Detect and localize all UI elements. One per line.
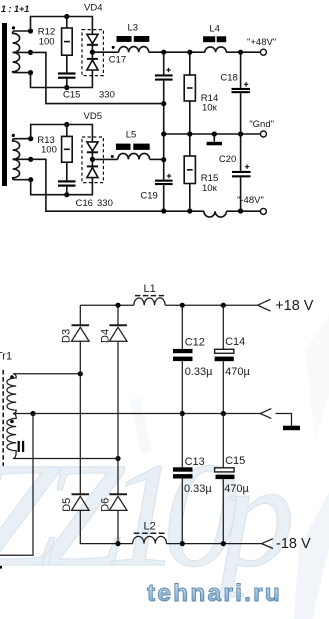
watermark big letters [0,432,291,598]
inductor L2 [133,536,167,543]
wire C17 stem [163,52,165,74]
wire C16 to bottom rail 2 [66,187,68,195]
node T1 top terminal [28,28,33,33]
node C17 top [161,50,166,55]
wire D4 bottom to h3 [117,341,119,458]
terminal Gnd [260,131,266,137]
ground symbol 2 [283,426,300,431]
svg-text:D3: D3 [61,329,73,343]
watermark swoosh bottom right [294,492,329,619]
resistor R15 stem [189,134,191,156]
terminal +18V arrow [258,299,271,311]
wire center tap down and left [0,414,33,556]
inductor L1 [134,298,165,305]
node R12 top [64,14,69,19]
capacitor C15 (top plate hollow) [215,468,235,472]
svg-text:100: 100 [41,145,57,156]
svg-text:C12: C12 [185,336,205,348]
svg-text:L4: L4 [209,24,220,35]
wire C13 bottom [181,479,183,544]
capacitor C19 [155,180,173,182]
svg-text:L3: L3 [128,23,139,34]
node rail D4 [115,303,120,308]
transformer winding 1 (lower half) [13,52,31,72]
wire T2 center tap to -48 rail [31,159,164,211]
node -48 rail R15 [187,208,192,213]
wire Gnd rail [164,133,261,135]
watermark swoosh top right [305,315,329,440]
wire VD5 output to L5 [92,158,117,160]
svg-text:"-48V": "-48V" [237,195,264,206]
resistor R14 stem [189,52,191,75]
diode D3 [72,324,90,326]
svg-text:VD4: VD4 [84,3,102,14]
wire C14 bottom [222,361,224,413]
transformer winding 1 (upper half, R12 side) [13,31,31,52]
watermark band upper [130,398,152,454]
wire R12 stem top [66,17,68,29]
capacitor C12 [173,349,193,353]
node -48 rail C19 [161,208,166,213]
node h3 D4/D6 junction [115,456,120,461]
wire C15 bottom [222,479,224,543]
svg-text:C14: C14 [225,336,245,348]
svg-text:330: 330 [97,198,113,209]
node R14 top [187,50,192,55]
capacitor C18 plus [244,82,248,86]
diode pack VD5 box [82,137,103,183]
svg-text:"Gnd": "Gnd" [249,119,274,130]
transformer core bar [2,23,7,186]
svg-text:470µ: 470µ [225,366,250,378]
node Gnd rail C18/C20 [238,131,243,136]
wire h2 center tap [13,413,260,415]
capacitor C18 stem [240,52,242,88]
svg-text:D6: D6 [99,498,111,512]
svg-text:ZZ10p: ZZ10p [0,432,291,598]
transformer Tr1 core dashed line [2,370,4,466]
node center tap [30,411,35,416]
svg-text:tehnari.ru: tehnari.ru [147,580,282,607]
node h1 D3 junction [78,371,83,376]
inductor L5 winding [118,153,150,159]
capacitor C13 stem [181,414,183,468]
svg-text:D4: D4 [99,329,111,343]
node Gnd rail R14 [187,131,192,136]
capacitor C20 stem [240,134,242,171]
capacitor C19 stem [163,160,165,180]
node VD5 common cathode [90,157,95,162]
capacitor C17 [155,74,173,76]
wire R15 bottom [189,184,191,212]
node +48V junction [238,50,243,55]
svg-text:100: 100 [39,37,55,48]
svg-text:C20: C20 [219,154,236,165]
bare winding on -48 rail [204,211,227,217]
wire C20 bottom [240,177,242,211]
wire bottom rail 2 [31,178,93,195]
node C15 bottom [64,85,69,90]
wire VD4 output to L3 [92,51,118,53]
node T2 center tap [28,157,33,162]
node -18 rail D6 [115,541,120,546]
resistor R15 [184,156,195,184]
inductor L2 core dashes [134,532,166,534]
resistor R14 [184,75,195,101]
svg-text:"+48V": "+48V" [247,37,276,48]
diode D6 [109,493,127,495]
svg-text:C19: C19 [140,190,157,201]
svg-text:0.33µ: 0.33µ [185,366,213,378]
capacitor C15 stem [222,414,224,468]
wire R13 to C16 [66,162,68,180]
svg-text:10к: 10к [202,103,218,114]
phase dot Tr1 lower [10,420,14,424]
svg-text:0.33µ: 0.33µ [184,483,212,495]
svg-text:C15: C15 [225,455,245,467]
wire C15 to bottom rail [66,79,68,88]
inductor L5 core bars [116,144,131,150]
wire +18 rail [80,304,257,306]
inductor L4 core bars [203,36,215,42]
svg-text:1 : 1+1: 1 : 1+1 [1,4,29,14]
diode pack VD4 box [82,30,103,76]
wire -48V rail [164,210,261,212]
capacitor C20 [232,171,251,173]
phase dot Tr1 upper [10,375,14,379]
capacitor C14 stem [222,305,224,349]
diode VD5 upper (pointing down) [87,142,98,151]
svg-text:D5: D5 [61,498,73,512]
terminal +48V [260,49,266,55]
svg-text:C15: C15 [63,90,80,101]
labels of top schematic [1,3,276,209]
capacitor C12 stem [181,305,183,349]
wire D5 bottom to -18 rail [80,510,118,543]
svg-text:C17: C17 [109,54,126,65]
labels of bottom schematic [0,283,314,552]
transformer winding 2 (lower half) [13,159,31,179]
node -48 rail C20 [238,208,243,213]
wire h3 bottom winding end [13,458,118,460]
wire mid to ground [276,414,292,426]
node -18 rail C15 [221,541,226,546]
node R13 top [64,122,69,127]
terminal -18V arrow [262,539,274,549]
label II marks [18,441,20,452]
wire -18 rail [118,543,262,545]
wire D4 top to rail [117,305,119,325]
diode D4 [109,324,127,326]
wire L5 to junction [150,158,164,160]
node rail C12 [180,303,185,308]
logo tehnari.ru [147,580,282,607]
wire C18 bottom [240,93,242,134]
wire vertical A h1 to D5 [79,374,81,495]
node Gnd rail C17 [161,131,166,136]
node T1 center tap [28,50,33,55]
transformer Tr1 winding II lower [7,414,16,459]
wire gnd to railB link [163,134,165,160]
capacitor C20 plus [245,165,249,169]
phase dot winding 1 [12,26,15,29]
phase dot L5 [111,155,114,158]
wire top rail 1 [31,17,93,35]
inductor L3 winding [119,47,149,53]
capacitor C17 plus [166,68,170,72]
capacitor C15 [58,72,76,74]
wire C12 bottom [181,361,183,413]
wire h1 top winding end [13,373,80,375]
svg-text:C18: C18 [220,73,237,84]
wire C17 bottom chain [163,81,165,134]
node mid rail C15 [221,411,226,416]
svg-text:10к: 10к [202,183,218,194]
inductor L4 winding [205,47,226,52]
wire D3 bottom to h1 [79,341,81,374]
node Gnd rail gnd symbol [212,131,217,136]
wire L4 to +48V terminal [226,51,260,53]
svg-text:Tr1: Tr1 [0,351,12,363]
svg-text:-18 V: -18 V [276,536,311,552]
node C16 bottom [64,192,69,197]
wire R13 stem [66,125,68,137]
wire rail A (+48 pre-L4) [149,51,205,53]
capacitor C13 [173,467,193,471]
wire stub left edge [0,566,2,569]
node -18 rail C13 [180,541,185,546]
phase dot L3 [112,46,115,49]
wire D6 top to h3 [117,459,119,495]
node center-tap junction [161,101,166,106]
node T2 top terminal [28,136,33,141]
diode VD5 lower (pointing up) [87,165,98,167]
node T1 bottom terminal [28,70,33,75]
diode VD4 upper (pointing down) [87,34,98,43]
capacitor C16 [58,180,76,182]
inductor L3 core bars [117,36,132,42]
svg-text:330: 330 [99,90,115,101]
node mid rail C13 [180,411,185,416]
node VD4 common cathode [90,50,95,55]
transformer winding 2 (upper half, R13 side) [13,139,31,160]
svg-text:L1: L1 [144,283,156,295]
inductor L1 core dashes [135,295,164,297]
svg-text:L2: L2 [144,521,156,533]
capacitor C18 [232,88,251,90]
svg-text:L5: L5 [126,130,137,141]
wire bottom rail 1 [31,70,93,88]
svg-text:470µ: 470µ [224,483,249,495]
wire D6 bottom to -18 rail [117,510,119,543]
svg-text:C13: C13 [185,456,205,468]
wire D3 top to rail [79,305,81,325]
resistor R12 [62,28,73,55]
diode D5 [72,493,90,495]
capacitor C14 (top plate hollow) [215,349,234,353]
terminal -48V [260,208,266,214]
svg-text:VD5: VD5 [84,111,102,122]
node T2 bottom terminal [28,177,33,182]
wire center tap T1 to gnd line [31,52,164,103]
wire R12 to C15 [66,55,68,72]
transformer Tr1 winding II upper [7,374,16,414]
svg-text:C16: C16 [76,198,93,209]
node rail C14 [221,303,226,308]
phase dot winding 2 [12,134,15,137]
wire C19 bottom [163,185,165,211]
svg-text:+18 V: +18 V [275,298,314,314]
terminal mid arrow [260,409,271,419]
diode VD4 lower (pointing up) [87,58,98,60]
capacitor C19 plus [167,174,171,178]
wire R14 bottom [189,101,191,134]
ground symbol 1 [213,134,215,142]
resistor R13 [62,136,73,162]
wire top rail 2 [31,125,93,142]
node rail B junction [161,157,166,162]
